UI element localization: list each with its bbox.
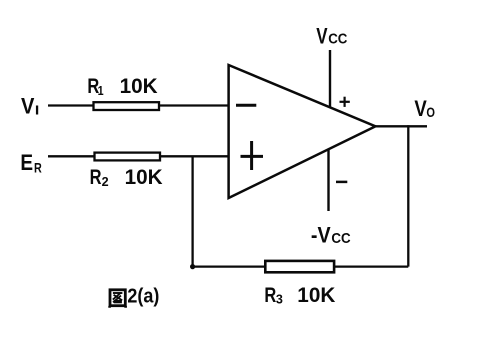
svg-text:O: O [426, 104, 435, 120]
svg-text:CC: CC [328, 32, 348, 48]
op-amp inverting input minus sign [236, 104, 256, 107]
wire feedback vertical from output node down [407, 125, 409, 266]
op-amp negative supply minus mark [336, 181, 347, 184]
wire from VI to R1 [48, 104, 93, 106]
op-amp positive supply plus mark [340, 97, 350, 107]
svg-text:R: R [264, 284, 276, 307]
svg-text:10K: 10K [125, 166, 163, 189]
svg-text:R: R [90, 166, 102, 189]
wire R3 to feedback corner [334, 265, 408, 267]
label R1 10K [87, 75, 157, 98]
label VO output [414, 96, 435, 121]
label R2 10K [90, 166, 163, 189]
op-amp non-inverting input plus sign [241, 141, 264, 170]
resistor R3 [265, 261, 334, 272]
resistor R1 [94, 102, 160, 110]
svg-text:10K: 10K [297, 284, 335, 307]
wire VCC supply stub [329, 50, 331, 107]
svg-text:1: 1 [98, 83, 104, 98]
svg-text:3: 3 [276, 291, 283, 306]
svg-text:2(a): 2(a) [127, 285, 159, 307]
label VCC [316, 24, 348, 49]
wire negative supply stub [327, 149, 329, 211]
svg-text:I: I [35, 104, 39, 118]
wire from R1 to op-amp inverting input [159, 104, 230, 106]
svg-text:R: R [34, 159, 42, 175]
svg-text:E: E [20, 150, 33, 175]
svg-text:V: V [414, 96, 426, 121]
wire from R2 to op-amp non-inverting input [160, 155, 230, 157]
figure caption text 2(a) [127, 285, 159, 307]
label R3 10K [264, 284, 335, 307]
figure caption character tu (CJK) drawn as strokes [110, 290, 126, 308]
svg-text:V: V [21, 93, 34, 118]
op-amp U1 triangle body [229, 65, 376, 198]
svg-text:10K: 10K [120, 75, 158, 98]
svg-text:V: V [316, 24, 327, 49]
wire bottom-left to R3 [193, 265, 265, 267]
label ER input [20, 150, 41, 176]
svg-text:CC: CC [331, 231, 351, 247]
node junction dot bottom-left corner [190, 264, 195, 269]
wire output from op-amp to VO [376, 125, 428, 127]
label VI input [21, 93, 39, 118]
label -VCC [311, 223, 351, 248]
wire from ER to R2 [48, 155, 94, 157]
wire junction drop from ER node down [191, 156, 193, 266]
resistor R2 [95, 153, 161, 161]
svg-text:-V: -V [311, 223, 331, 248]
svg-text:2: 2 [102, 174, 109, 189]
